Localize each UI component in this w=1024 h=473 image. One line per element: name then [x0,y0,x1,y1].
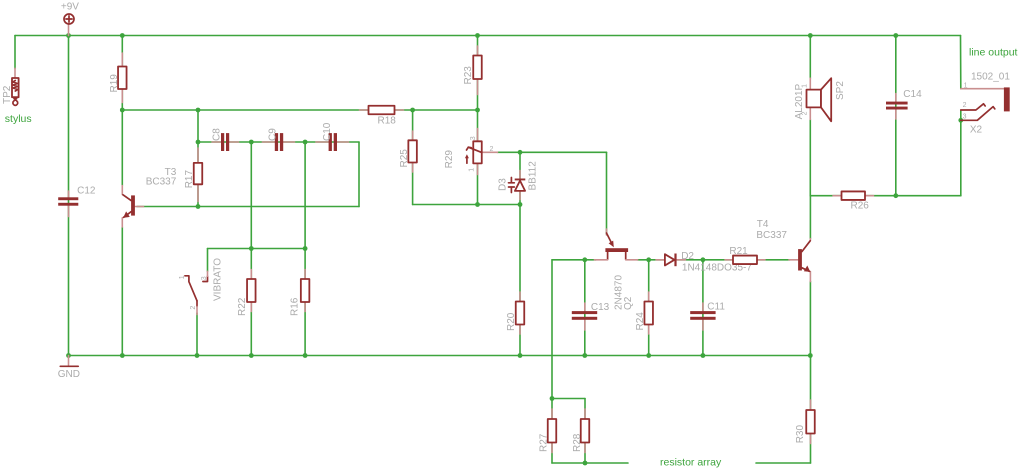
junction R26-C14 node [893,193,898,198]
junction switch gnd [195,353,200,358]
wire speaker column [809,36,811,79]
junction C11 gnd [701,353,706,358]
svg-text:R18: R18 [378,116,397,127]
svg-text:R26: R26 [851,200,870,211]
resistor R30 [795,400,815,444]
wire T4 emitter to gnd [809,281,811,355]
wire R28 column [584,399,586,464]
junction R22 gnd [249,353,254,358]
wire D3 column [519,152,521,204]
resistor R19 [109,53,127,103]
svg-text:C11: C11 [707,302,725,313]
wire T3 emitter column [121,227,123,356]
wire R27 column [551,399,553,464]
wire bottom right y463 [756,462,811,464]
junction R22 top [249,246,254,251]
wire jack switch feed [960,110,962,196]
resistor R20 [506,292,524,334]
wire Q2 B1 left segment [552,259,596,261]
wire R30 column [810,356,812,464]
junction C14 top [893,33,898,38]
svg-text:C9: C9 [267,128,278,141]
svg-text:3: 3 [470,136,477,140]
svg-text:resistor array: resistor array [660,457,722,469]
svg-text:R30: R30 [795,425,806,444]
testpoint TP2 [2,68,19,105]
junction R20 gnd [518,353,523,358]
svg-text:2: 2 [490,146,494,153]
svg-text:T4: T4 [757,219,769,230]
wire R25 column [412,110,414,205]
svg-text:R21: R21 [729,246,748,257]
resistor R27 [539,409,557,453]
resistor R18 [360,106,404,127]
svg-text:R22: R22 [237,297,248,316]
wire jack tip feed [960,36,962,89]
wire R25-R29-D3 bottom y204.5 [413,204,520,206]
junction R29 bottom [475,202,480,207]
junction R24 top [646,257,651,262]
diode D2 1N4148 [656,251,752,273]
svg-text:stylus: stylus [5,113,32,125]
wire C13 column [584,260,586,356]
wire C14 column [895,36,897,196]
junction R19 top [120,33,125,38]
wire R29 column [477,110,479,205]
resistor R25 [399,131,417,172]
switch VIBRATO [179,258,224,315]
resistor R17 [184,148,202,202]
resistor R26 [833,191,874,211]
wire R16 column [304,142,306,356]
svg-text:C8: C8 [212,128,223,141]
svg-text:R28: R28 [572,433,583,452]
unijunction transistor Q2 2N4870 [594,229,637,310]
wire C11 column [702,260,704,356]
svg-text:X2: X2 [970,125,983,136]
wire vibrato line y248.5 [208,248,306,250]
transistor T3 BC337 [122,167,176,227]
junction C8-C9 [249,140,254,145]
svg-text:BC337: BC337 [146,176,177,187]
wire TP2 drop [14,36,16,69]
svg-text:C13: C13 [591,302,610,313]
speaker SP2 AL201P [794,78,846,121]
svg-text:D3: D3 [497,178,508,191]
capacitor C14 [886,89,922,119]
junction C9-C10 [303,140,308,145]
svg-text:line output: line output [969,46,1018,58]
svg-text:1: 1 [469,168,476,172]
junction T4 emitter gnd [808,353,813,358]
wire C12 branch [68,36,70,356]
capacitor C10 [316,122,349,151]
resistor R22 [237,270,255,317]
capacitor C8 [212,128,239,151]
wire mid rail y110 [122,109,477,111]
svg-text:TP2: TP2 [2,85,13,104]
junction D3 bottom [518,202,523,207]
svg-text:Q2: Q2 [623,296,634,310]
wire resistor-array feed [551,260,553,399]
svg-text:+9V: +9V [61,2,79,13]
wire R22 column [250,142,252,356]
svg-text:VIBRATO: VIBRATO [213,258,224,301]
junction R23 top [475,33,480,38]
power +9V supply symbol [61,2,79,36]
junction X2 pins 2-3 [958,118,963,123]
wire T3 collector column [121,110,123,186]
svg-text:R24: R24 [635,312,646,331]
wire switch throw drop [207,249,209,272]
svg-text:BC337: BC337 [756,230,787,241]
svg-text:C12: C12 [77,186,96,197]
transistor T4 BC337 [756,219,810,282]
junction T3 base [196,204,201,209]
wire R27-R28 top link [552,398,585,400]
resistor R24 [635,292,653,334]
junction T3 emitter gnd [120,353,125,358]
ground symbol GND [58,356,80,381]
trimmer R29 [444,129,498,175]
junction R25 top [410,108,415,113]
wire R20 column [519,205,521,356]
junction R16 gnd [303,353,308,358]
svg-text:C10: C10 [322,122,333,141]
svg-text:R20: R20 [506,312,517,331]
svg-text:C14: C14 [903,89,922,100]
svg-text:2: 2 [190,306,197,310]
svg-text:R16: R16 [290,297,301,316]
resistor R21 [725,246,765,264]
svg-text:1: 1 [179,275,186,279]
svg-text:R27: R27 [539,433,550,452]
junction +9V/C12 [66,33,71,38]
svg-text:D2: D2 [681,251,694,262]
varicap diode D3 BB112 [497,161,538,200]
wire R21 to T4 base [757,259,790,261]
wire GND rail [69,355,811,357]
junction R24 gnd [646,353,651,358]
wire capacitor chain y142 [198,141,359,143]
wire R23 column [477,36,479,111]
resistor R28 [572,409,589,453]
wire bottom left y463 [552,462,628,464]
capacitor C11 [690,302,725,331]
wire Q2 B2 to D2 segment [637,259,665,261]
wire wiper line y152.3 [497,151,607,153]
svg-text:R23: R23 [463,66,474,85]
junction chain left [196,140,201,145]
svg-text:R25: R25 [399,149,410,168]
resistor R23 [463,46,482,95]
svg-text:3: 3 [963,114,967,121]
junction SP2 top [808,33,813,38]
wire +9V top rail [15,35,961,37]
svg-text:R17: R17 [184,170,195,189]
svg-text:1502_01: 1502_01 [971,72,1010,83]
svg-text:GND: GND [58,369,80,380]
wire T3 base line y206.5 [137,206,359,208]
wire R24 column [648,260,650,356]
capacitor C12 [58,186,96,217]
svg-text:BB112: BB112 [527,161,538,191]
junction R28 bottom [583,461,588,466]
junction C13 gnd [582,353,587,358]
resistor R16 [290,270,310,317]
wire output line y195.7 [810,195,961,197]
svg-text:1: 1 [964,82,968,89]
svg-text:AL201P: AL201P [794,83,805,119]
svg-text:R29: R29 [444,150,455,169]
wire speaker lower column [809,119,811,195]
svg-text:R19: R19 [109,74,120,93]
junction R17 top rail [196,108,201,113]
junction D3 top [518,150,523,155]
junction R23 bottom [475,108,480,113]
wire Q2 emitter drop [606,152,608,234]
svg-text:3: 3 [201,276,208,280]
junction R19 bottom [120,108,125,113]
junction R27 top [550,396,555,401]
capacitor C13 [572,302,610,330]
wire R19 branch [121,36,123,111]
connector X2 jack 1502_01 [961,72,1011,136]
svg-text:SP2: SP2 [835,81,846,100]
capacitor C9 [262,128,294,151]
wire T4 collector link [809,196,811,239]
junction C13 top [582,257,587,262]
wire chain return vertical [358,142,360,207]
wire switch pole to gnd [196,313,198,356]
wire R17 column [197,110,199,207]
wire D2 to R21 segment [677,259,733,261]
svg-text:2: 2 [963,102,967,109]
junction C11 top [701,257,706,262]
junction C12 gnd [66,353,71,358]
junction R16 top [303,246,308,251]
